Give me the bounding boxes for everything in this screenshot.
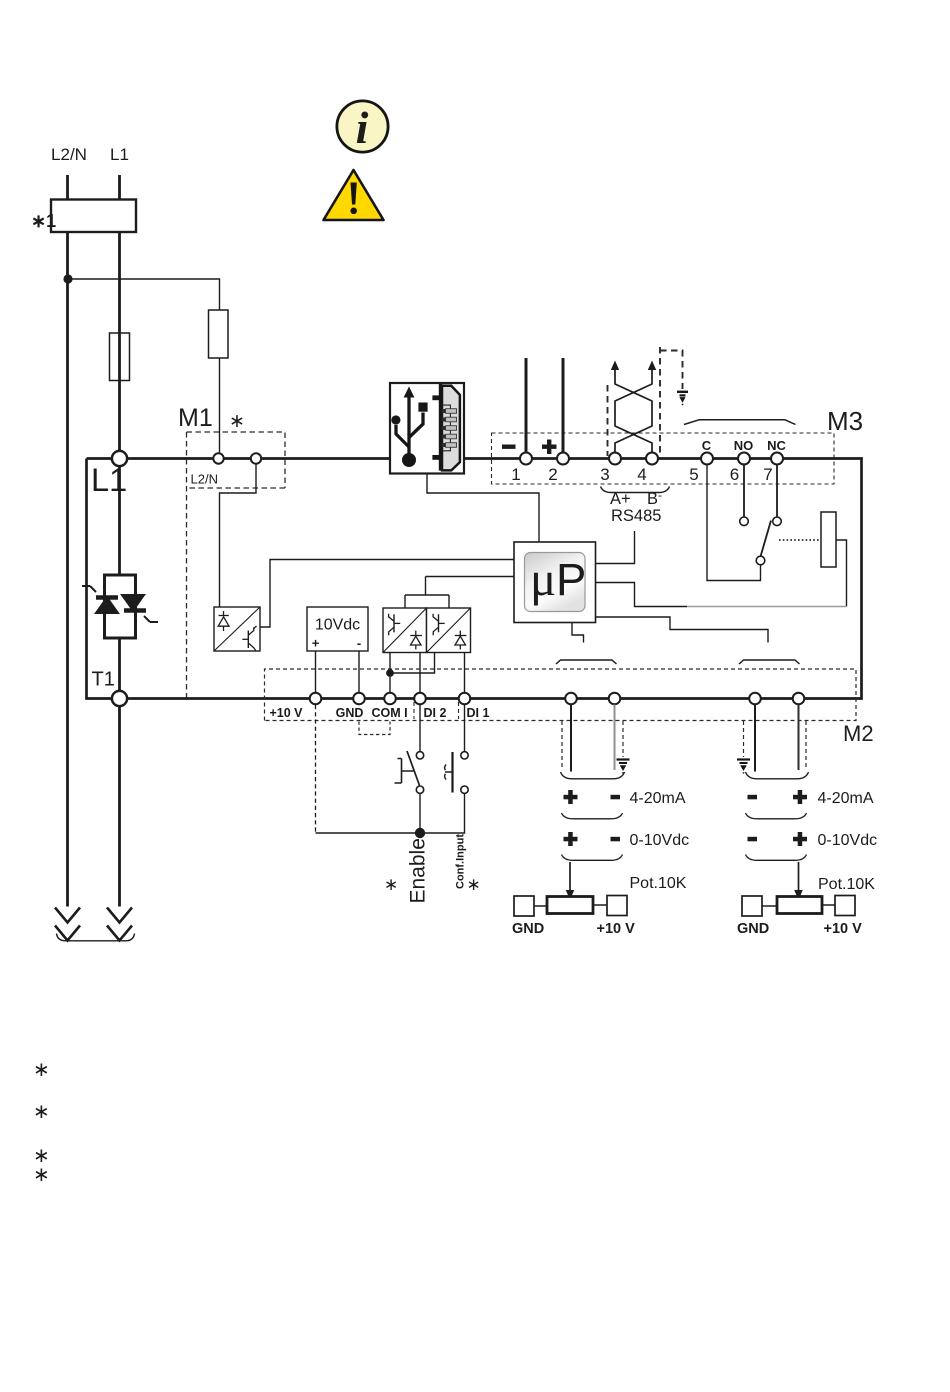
wire opto U2 to uP xyxy=(260,560,514,628)
separator dash (DI 2 / DI 1) xyxy=(458,702,460,719)
wire uP right lower (to analog right) xyxy=(596,617,769,643)
ground arrows L2/N xyxy=(55,908,80,941)
terminal 1 xyxy=(520,453,532,465)
svg-text:+10 V: +10 V xyxy=(824,921,863,937)
svg-text:∗: ∗ xyxy=(384,875,398,894)
svg-text:+10 V: +10 V xyxy=(597,921,636,937)
warning icon xyxy=(324,170,384,220)
terminal AI2- xyxy=(749,693,761,705)
mechanical link (dotted) xyxy=(779,539,821,541)
junction COM I xyxy=(386,669,394,677)
wire opto U3 right pin to DI2 xyxy=(419,653,421,694)
wire uP to RS485 xyxy=(596,531,635,564)
terminal DI 2 xyxy=(414,693,426,705)
svg-text:L2/N: L2/N xyxy=(191,472,218,487)
main box outline xyxy=(87,459,862,699)
svg-text:P: P xyxy=(556,554,586,605)
USB port U5 (box) xyxy=(390,383,464,474)
svg-text:GND: GND xyxy=(336,706,364,720)
terminal 7 xyxy=(771,453,783,465)
brace under 0-10Vdc (AI2) xyxy=(746,855,807,861)
bracket over left analog terminals xyxy=(556,660,617,664)
svg-text:DI 2: DI 2 xyxy=(424,706,447,720)
svg-text:+10 V: +10 V xyxy=(269,706,303,720)
terminal AI2+ xyxy=(793,693,805,705)
wire opto U4 left pin to COM I junction xyxy=(390,653,435,674)
svg-text:Pot.10K: Pot.10K xyxy=(818,876,875,893)
wire up from terminal 2 xyxy=(562,358,565,455)
svg-text:A+: A+ xyxy=(610,490,631,508)
bracket over relay contacts xyxy=(684,420,796,425)
bracket under ground arrows xyxy=(57,934,135,941)
terminal AI1+ xyxy=(565,693,577,705)
svg-text:RS485: RS485 xyxy=(611,507,661,525)
svg-text:T1: T1 xyxy=(92,669,115,691)
svg-text:10Vdc: 10Vdc xyxy=(315,617,360,634)
svg-text:5: 5 xyxy=(689,465,698,484)
svg-text:Enable: Enable xyxy=(407,838,430,903)
wire up from terminal 1 xyxy=(525,358,528,455)
plus sign (terminal 2) xyxy=(542,440,557,455)
svg-text:4-20mA: 4-20mA xyxy=(818,790,874,807)
arrow to potentiometer (AI2) xyxy=(798,862,800,891)
wire junction to fuse F2 xyxy=(68,279,220,310)
wire opto U3 left pin to COM I xyxy=(389,653,391,694)
svg-text:M2: M2 xyxy=(843,721,874,746)
wire terminal 5 (C) to relay arm xyxy=(707,464,761,581)
terminal M1-1 xyxy=(213,453,223,463)
wire 10Vdc- to terminal GND xyxy=(358,651,360,693)
jumper dashed GND-COM I xyxy=(359,722,390,735)
relay coil K1 xyxy=(821,512,836,567)
svg-text:NC: NC xyxy=(767,438,786,453)
plus sign AI1 4-20mA xyxy=(564,790,578,804)
svg-text:0-10Vdc: 0-10Vdc xyxy=(818,832,878,849)
+10V square (AI1) xyxy=(607,896,627,916)
svg-text:B: B xyxy=(647,490,658,508)
svg-text:M1: M1 xyxy=(178,404,213,432)
potentiometer body (AI2) xyxy=(777,897,822,914)
wire opto tops to uP xyxy=(405,577,514,609)
svg-text:∗: ∗ xyxy=(229,411,245,432)
wire M1-2 to optocoupler U2 xyxy=(220,464,257,607)
arrow to potentiometer (AI1) xyxy=(569,862,571,891)
svg-text:L1: L1 xyxy=(91,462,127,498)
bracket over right analog terminals xyxy=(739,660,800,664)
wire L2/N mains (vertical, down to ground arrows) xyxy=(66,232,69,907)
svg-text:+: + xyxy=(312,636,320,651)
terminal 4 xyxy=(646,453,658,465)
shield dashed right (AI1) to earth xyxy=(622,721,624,757)
wire bus to +10V xyxy=(316,832,421,834)
svg-text:GND: GND xyxy=(737,921,769,937)
terminal 3 xyxy=(609,453,621,465)
switch Enable xyxy=(395,751,424,793)
wire to uP right (black run) xyxy=(596,583,688,607)
shield dashed left (AI2) to earth xyxy=(743,721,745,757)
terminal GND xyxy=(353,693,365,705)
svg-text:-: - xyxy=(658,488,662,502)
twisted pair RS485 xyxy=(615,368,652,452)
wire coil to uP (gray run) xyxy=(687,606,847,608)
wire 10Vdc+ to terminal +10V xyxy=(315,651,317,693)
svg-text:DI 1: DI 1 xyxy=(467,706,490,720)
svg-text:0-10Vdc: 0-10Vdc xyxy=(630,832,690,849)
USB trident symbol xyxy=(396,395,423,454)
terminal 5 xyxy=(701,453,713,465)
connector M3 dashed outline xyxy=(492,433,835,484)
GND square (AI1) xyxy=(514,896,534,916)
junction on L2/N xyxy=(63,274,72,283)
terminal +10V xyxy=(310,693,322,705)
plus sign AI2 0-10Vdc xyxy=(793,832,807,846)
svg-text:3: 3 xyxy=(600,465,609,484)
wire Enable to junction xyxy=(419,794,421,834)
wire GND sq to pot (AI2) xyxy=(762,905,777,907)
potentiometer body (AI1) xyxy=(547,897,593,914)
microprocessor U1 xyxy=(514,542,596,623)
svg-text:∗: ∗ xyxy=(33,1101,50,1123)
minus sign AI1 4-20mA xyxy=(611,795,621,800)
wire coil to uP (part black) xyxy=(836,540,847,607)
terminal 6 xyxy=(738,453,750,465)
svg-text:2: 2 xyxy=(548,465,557,484)
wire L1 into block *1 xyxy=(118,175,121,200)
connector M2 dashed outline xyxy=(265,669,857,721)
wire AI2+ down xyxy=(798,705,800,771)
wire +10V dashed down xyxy=(315,705,317,833)
svg-text:L1: L1 xyxy=(110,145,129,164)
plus sign AI1 0-10Vdc xyxy=(564,832,578,846)
wire AI1- down (gray) xyxy=(614,705,616,771)
relay lever xyxy=(761,521,772,557)
svg-text:7: 7 xyxy=(763,465,772,484)
earth ground (AI1) xyxy=(617,760,630,774)
earth ground (AI2) xyxy=(737,760,750,774)
terminal 2 xyxy=(557,453,569,465)
GND square (AI2) xyxy=(742,896,762,916)
triac Q1 xyxy=(82,575,158,638)
ground arrows L1 xyxy=(107,908,132,941)
wire pot to +10V sq (AI2) xyxy=(822,904,835,906)
svg-text:NO: NO xyxy=(734,438,754,453)
svg-text:4-20mA: 4-20mA xyxy=(630,790,686,807)
wire terminal 6 (NO) down xyxy=(743,464,745,517)
svg-text:∗1: ∗1 xyxy=(31,211,56,231)
wire AI2- down xyxy=(754,705,756,772)
svg-text:COM I: COM I xyxy=(371,706,407,720)
terminal AI1- xyxy=(609,693,621,705)
svg-text:Pot.10K: Pot.10K xyxy=(630,875,687,892)
wire USB to uP xyxy=(427,474,539,543)
svg-text:∗: ∗ xyxy=(467,875,481,894)
terminal COM I xyxy=(384,693,396,705)
terminal T1 xyxy=(112,691,127,706)
svg-text:GND: GND xyxy=(512,921,544,937)
optocoupler U4 (DI1) xyxy=(427,608,471,653)
wire terminal 7 (NC) down xyxy=(776,464,778,517)
terminal L1 xyxy=(112,451,127,466)
wire uP bottom stub xyxy=(572,623,584,643)
wire L2/N into block *1 xyxy=(66,175,69,200)
minus sign AI2 0-10Vdc xyxy=(748,837,758,842)
shield dashed left (AI1) xyxy=(561,721,563,770)
svg-text:∗: ∗ xyxy=(33,1164,50,1186)
wire pot to +10V sq (AI1) xyxy=(593,904,607,906)
brace under AI1 wires xyxy=(561,772,625,779)
svg-text:6: 6 xyxy=(730,465,739,484)
svg-text:M3: M3 xyxy=(827,406,863,436)
shield dashed right (AI2) xyxy=(805,721,807,770)
separator dash (COM I / DI 2) xyxy=(413,702,415,719)
wire AI1+ down xyxy=(570,705,572,772)
relay contact NO xyxy=(740,517,749,526)
brace between rows (AI1) xyxy=(562,813,623,819)
wire DI1 to Conf switch xyxy=(464,705,466,751)
optocoupler U2 (triac driver) xyxy=(214,607,260,651)
connector M1 dashed outline xyxy=(187,432,286,698)
svg-text:∗: ∗ xyxy=(33,1059,50,1081)
brace under terminals 3-4 xyxy=(601,487,670,493)
wire opto U4 right pin to DI1 xyxy=(464,653,466,694)
micro-USB connector drawing xyxy=(432,384,460,471)
+10V square (AI2) xyxy=(835,896,855,916)
wire GND sq to pot (AI1) xyxy=(534,905,547,907)
relay contact NC xyxy=(773,517,782,526)
cable shield dashed xyxy=(608,347,683,456)
wire DI2 to Enable switch xyxy=(419,705,421,751)
svg-text:C: C xyxy=(702,438,712,453)
brace under AI2 wires xyxy=(746,772,809,779)
svg-text:Conf.Input: Conf.Input xyxy=(455,834,467,889)
wire fuse F2 to terminal M1-1 xyxy=(219,358,221,453)
wire Conf to bus xyxy=(420,794,465,834)
earth ground (shield) xyxy=(677,392,688,405)
info icon xyxy=(337,101,388,153)
fuse F1 (on L1) xyxy=(110,333,130,381)
terminal M1-2 xyxy=(251,453,261,463)
minus sign AI1 0-10Vdc xyxy=(611,837,621,842)
svg-text:-: - xyxy=(357,636,361,651)
power supply 10Vdc xyxy=(307,607,368,651)
terminal DI 1 xyxy=(459,693,471,705)
svg-text:μ: μ xyxy=(530,551,556,606)
brace under 0-10Vdc (AI1) xyxy=(562,855,623,861)
switch Conf.Input (push-button) xyxy=(445,752,469,794)
breaker block *1 xyxy=(51,200,136,233)
svg-text:4: 4 xyxy=(637,465,646,484)
svg-text:1: 1 xyxy=(511,465,520,484)
wire L1 mains (vertical) xyxy=(118,232,121,907)
minus sign AI2 4-20mA xyxy=(748,795,758,800)
minus sign (terminal 1) xyxy=(502,445,516,449)
junction Enable xyxy=(415,828,425,838)
fuse F2 xyxy=(209,310,229,358)
plus sign AI2 4-20mA xyxy=(793,790,807,804)
optocoupler U3 (DI2) xyxy=(383,608,427,653)
brace between rows (AI2) xyxy=(746,813,807,819)
svg-text:L2/N: L2/N xyxy=(51,145,87,164)
relay pivot contact xyxy=(756,556,765,565)
svg-text:i: i xyxy=(356,102,369,153)
